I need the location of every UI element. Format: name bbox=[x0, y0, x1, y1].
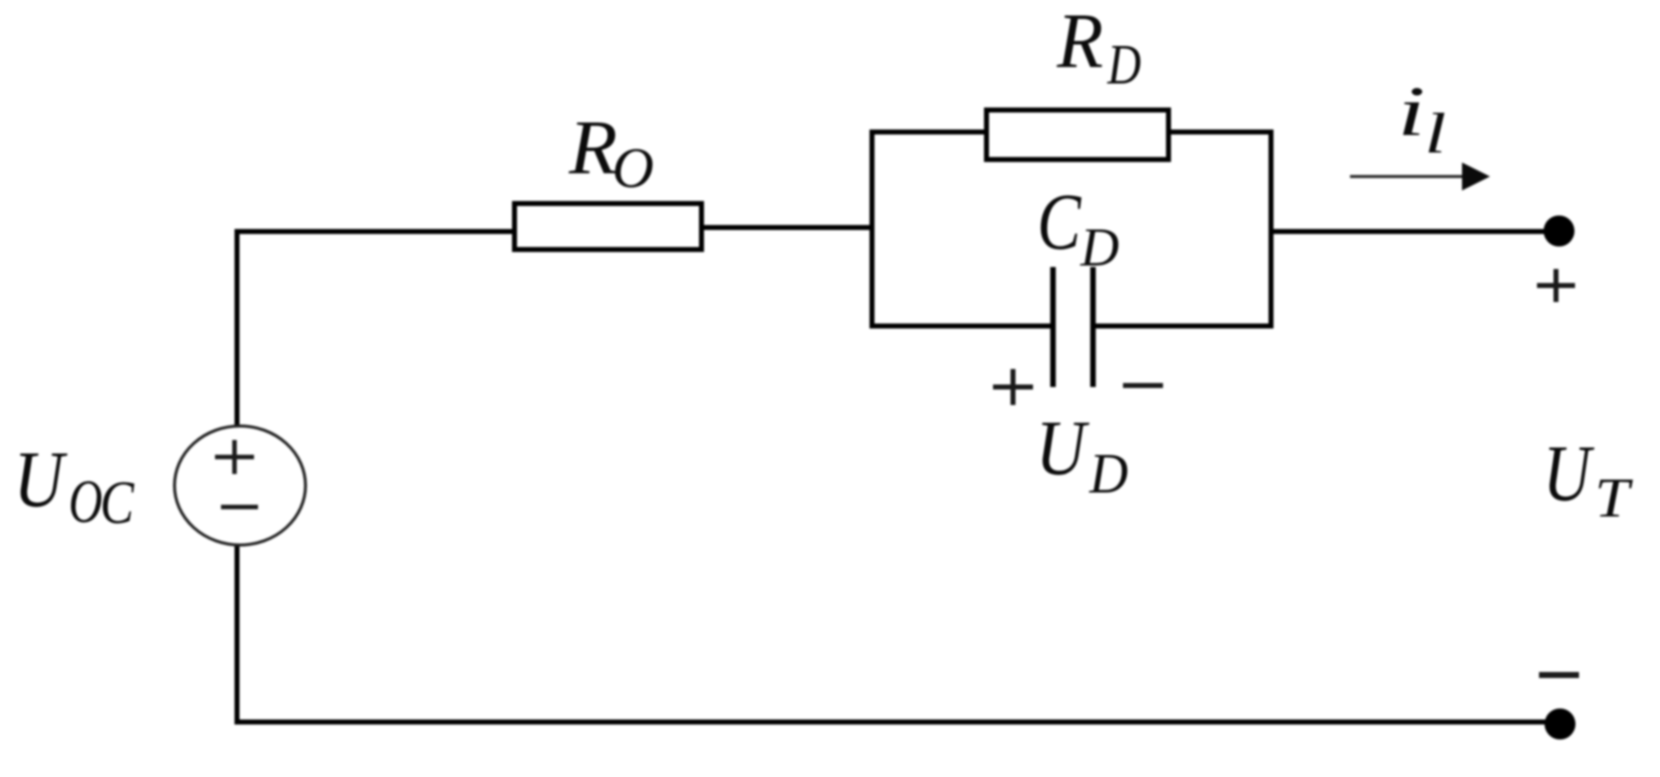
RC block top-right wire bbox=[1168, 130, 1274, 135]
node negative terminal dot bbox=[1545, 709, 1576, 740]
label U_OC bbox=[14, 435, 135, 537]
capacitor plus polarity sign bbox=[993, 369, 1033, 405]
svg-text:l: l bbox=[1425, 101, 1447, 165]
voltage source minus sign bbox=[221, 505, 258, 510]
svg-text:O: O bbox=[612, 137, 654, 200]
label R_D bbox=[1056, 0, 1141, 97]
svg-text:D: D bbox=[1107, 34, 1141, 96]
RC block top-left wire bbox=[870, 130, 987, 135]
RC block bottom-right wire bbox=[1096, 324, 1274, 329]
wire RC block to positive terminal bbox=[1269, 229, 1557, 234]
terminal minus sign bbox=[1539, 672, 1579, 678]
svg-text:T: T bbox=[1595, 466, 1634, 529]
wire top-left horizontal bbox=[235, 229, 517, 234]
svg-text:U: U bbox=[1543, 429, 1594, 517]
wire bottom horizontal bbox=[235, 720, 1559, 725]
label i_l bbox=[1398, 72, 1447, 165]
svg-text:U: U bbox=[14, 435, 69, 524]
capacitor C_D right plate bbox=[1090, 267, 1096, 387]
label C_D bbox=[1037, 178, 1119, 278]
label R_O bbox=[568, 104, 654, 200]
terminal plus sign bbox=[1537, 269, 1575, 302]
svg-text:U: U bbox=[1036, 404, 1090, 491]
svg-text:i: i bbox=[1398, 72, 1426, 150]
wire left vertical (source branch) bbox=[235, 229, 240, 722]
RC block left vertical wire bbox=[870, 130, 875, 329]
wire R_O to RC block bbox=[702, 225, 874, 230]
svg-text:O: O bbox=[69, 467, 103, 536]
svg-text:C: C bbox=[1037, 178, 1082, 267]
svg-text:D: D bbox=[1080, 216, 1120, 278]
capacitor C_D left plate bbox=[1050, 267, 1056, 387]
label U_T bbox=[1543, 429, 1633, 529]
voltage source plus sign bbox=[215, 440, 254, 474]
svg-text:R: R bbox=[568, 104, 617, 190]
svg-text:D: D bbox=[1089, 442, 1129, 505]
svg-text:R: R bbox=[1056, 0, 1103, 84]
node positive terminal dot bbox=[1544, 216, 1575, 247]
capacitor minus polarity sign bbox=[1123, 383, 1163, 388]
svg-text:C: C bbox=[100, 470, 135, 538]
RC block bottom-left wire bbox=[870, 324, 1052, 329]
voltage source U_OC circle bbox=[175, 426, 306, 545]
resistor R_O bbox=[515, 204, 702, 250]
label U_D bbox=[1036, 404, 1129, 505]
resistor R_D bbox=[987, 110, 1169, 160]
current arrow i_l bbox=[1350, 163, 1490, 191]
RC block right vertical wire bbox=[1269, 130, 1274, 329]
